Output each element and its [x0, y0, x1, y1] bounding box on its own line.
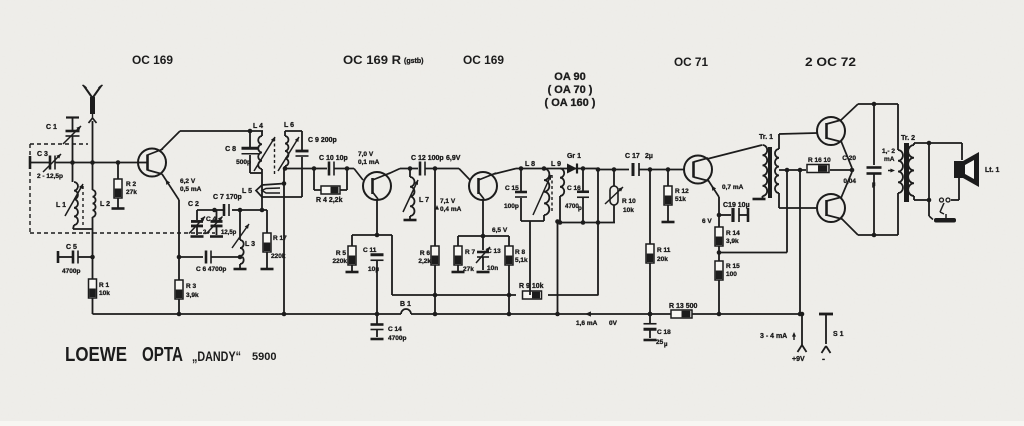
svg-text:6 V: 6 V [702, 218, 712, 225]
svg-text:10µ: 10µ [368, 266, 379, 273]
svg-text:5,1k: 5,1k [515, 257, 528, 264]
svg-text:R 11: R 11 [657, 247, 671, 254]
svg-text:500p: 500p [236, 159, 251, 166]
svg-text:2 OC 72: 2 OC 72 [805, 55, 856, 69]
svg-text:C 9 200p: C 9 200p [308, 137, 337, 144]
svg-text:6,2 V: 6,2 V [180, 178, 196, 185]
svg-text:0,4 mA: 0,4 mA [440, 206, 462, 213]
svg-text:0,1 mA: 0,1 mA [358, 159, 380, 166]
svg-text:220k: 220k [271, 253, 286, 260]
svg-text:27k: 27k [463, 266, 474, 273]
svg-text:0V: 0V [609, 320, 618, 327]
svg-text:C 2: C 2 [188, 201, 199, 208]
svg-text:L 6: L 6 [284, 122, 294, 129]
svg-text:2,2k: 2,2k [418, 258, 431, 265]
svg-text:L 4: L 4 [253, 123, 263, 130]
svg-text:Lt. 1: Lt. 1 [985, 167, 999, 174]
svg-text:OC 169 R: OC 169 R [343, 53, 401, 67]
svg-text:6,9V: 6,9V [446, 155, 461, 162]
svg-text:R 3: R 3 [186, 283, 197, 290]
svg-text:7,0 V: 7,0 V [358, 151, 374, 158]
svg-text:C 14: C 14 [388, 326, 402, 333]
svg-text:R 7: R 7 [465, 249, 476, 256]
svg-text:( OA 160 ): ( OA 160 ) [545, 97, 596, 109]
svg-text:L 2: L 2 [100, 201, 110, 208]
svg-text:C 6 4700p: C 6 4700p [196, 266, 226, 273]
svg-text:51k: 51k [675, 196, 686, 203]
svg-text:1,6 mA: 1,6 mA [576, 320, 598, 327]
svg-text:100p: 100p [504, 203, 519, 210]
svg-text:C 16: C 16 [567, 185, 581, 192]
svg-text:R 14: R 14 [726, 230, 740, 237]
svg-text:L 7: L 7 [419, 197, 429, 204]
svg-text:0,5 mA: 0,5 mA [180, 186, 202, 193]
svg-text:µ: µ [664, 342, 668, 348]
svg-text:27k: 27k [126, 189, 137, 196]
svg-text:OA 90: OA 90 [554, 71, 585, 83]
svg-text:2µ: 2µ [645, 153, 653, 160]
svg-text:L 1: L 1 [56, 202, 66, 209]
svg-text:4700p: 4700p [388, 335, 406, 342]
svg-text:10n: 10n [487, 265, 498, 272]
svg-text:R 9 10k: R 9 10k [519, 283, 544, 290]
svg-text:C 1: C 1 [46, 124, 57, 131]
svg-text:R 6: R 6 [420, 250, 431, 257]
svg-text:25: 25 [656, 339, 664, 346]
svg-text:0,04: 0,04 [843, 178, 856, 185]
svg-text:+9V: +9V [792, 356, 805, 363]
svg-text:R 4 2,2k: R 4 2,2k [316, 197, 343, 204]
svg-text:C 13: C 13 [487, 248, 501, 255]
svg-text:OPTA: OPTA [142, 344, 183, 366]
svg-text:C 4: C 4 [206, 216, 217, 223]
svg-text:LOEWE: LOEWE [65, 344, 127, 366]
svg-text:R 5: R 5 [336, 250, 347, 257]
svg-text:L 3: L 3 [245, 241, 255, 248]
svg-text:C19 10µ: C19 10µ [723, 202, 750, 209]
svg-text:C 20: C 20 [842, 155, 856, 162]
svg-text:Tr. 2: Tr. 2 [901, 135, 915, 142]
svg-text:µ: µ [872, 182, 876, 188]
svg-text:100: 100 [726, 271, 737, 278]
svg-text:12,5p: 12,5p [221, 230, 237, 236]
svg-text:L 9: L 9 [551, 161, 561, 168]
svg-text:4700p: 4700p [62, 268, 80, 275]
svg-text:2 -: 2 - [203, 230, 210, 236]
svg-text:10k: 10k [99, 290, 110, 297]
svg-text:R 16 10: R 16 10 [808, 157, 831, 164]
svg-text:B 1: B 1 [400, 301, 411, 308]
svg-text:10k: 10k [623, 207, 634, 214]
svg-text:5900: 5900 [252, 351, 276, 363]
svg-text:6,5 V: 6,5 V [492, 227, 508, 234]
svg-text:R 15: R 15 [726, 263, 740, 270]
svg-text:C 17: C 17 [625, 153, 640, 160]
svg-text:OC 71: OC 71 [674, 55, 708, 69]
svg-text:20k: 20k [657, 256, 668, 263]
svg-text:C 12 100p: C 12 100p [411, 155, 444, 162]
svg-text:R 10: R 10 [622, 198, 636, 205]
svg-text:L 8: L 8 [525, 161, 535, 168]
svg-text:C 7 170p: C 7 170p [213, 194, 242, 201]
svg-text:3 - 4 mA: 3 - 4 mA [760, 333, 787, 340]
svg-text:3,9k: 3,9k [726, 238, 739, 245]
svg-text:R 12: R 12 [675, 188, 689, 195]
svg-text:p: p [578, 205, 582, 212]
svg-text:C 3: C 3 [37, 151, 48, 158]
svg-text:mA: mA [884, 156, 895, 163]
svg-text:Gr 1: Gr 1 [567, 153, 581, 160]
svg-text:L 5: L 5 [242, 188, 252, 195]
svg-text:Tr. 1: Tr. 1 [759, 134, 773, 141]
svg-text:C 10 10p: C 10 10p [319, 155, 348, 162]
svg-text:(gstb): (gstb) [404, 58, 423, 65]
svg-text:( OA 70 ): ( OA 70 ) [548, 84, 593, 96]
svg-text:R 2: R 2 [126, 181, 137, 188]
svg-text:R 13 500: R 13 500 [669, 303, 698, 310]
svg-text:2 - 12,5p: 2 - 12,5p [37, 173, 63, 180]
svg-text:OC 169: OC 169 [463, 53, 504, 67]
svg-text:C 5: C 5 [66, 244, 77, 251]
svg-text:C 8: C 8 [225, 146, 236, 153]
svg-text:R 1: R 1 [99, 282, 110, 289]
svg-text:S 1: S 1 [833, 331, 844, 338]
svg-text:220k: 220k [333, 258, 348, 265]
svg-text:0,7 mA: 0,7 mA [722, 184, 744, 191]
svg-text:3,9k: 3,9k [186, 292, 199, 299]
svg-text:R 17: R 17 [273, 235, 287, 242]
svg-text:C 11: C 11 [363, 247, 377, 254]
svg-text:C 15: C 15 [505, 185, 519, 192]
svg-text:„DANDY“: „DANDY“ [192, 348, 241, 364]
svg-text:C 18: C 18 [657, 329, 671, 336]
svg-text:7,1 V: 7,1 V [440, 198, 456, 205]
svg-text:-: - [822, 354, 825, 364]
svg-text:1,- 2: 1,- 2 [882, 148, 895, 155]
svg-text:R 8: R 8 [515, 249, 526, 256]
svg-text:OC 169: OC 169 [132, 53, 173, 67]
